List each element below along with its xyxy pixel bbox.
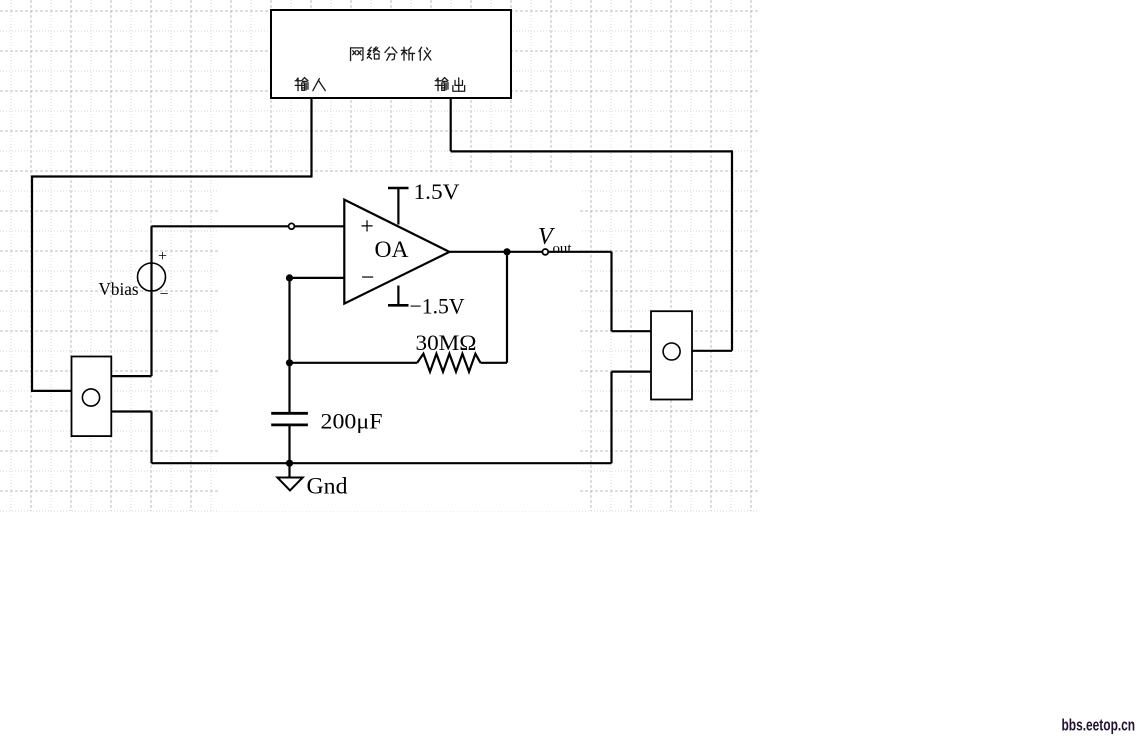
wire: left probe bottom stub [111,410,151,412]
op-amp U2 "OA" [344,200,449,304]
wire: feedback horizontal left [290,362,418,364]
node: junction dot inverting input [286,274,293,281]
node: junction dot feedback tap [286,359,293,366]
label 输入 (input port) [295,78,325,91]
wire: feedback horizontal right [481,362,508,364]
wire: inverting node down to cap [288,278,290,413]
svg-text:Vbias: Vbias [99,279,139,299]
svg-text:200μF: 200μF [321,409,383,434]
probe/connector J1 (left) [72,357,112,437]
svg-text:Gnd: Gnd [307,474,349,499]
wire: ground bus horizontal [152,462,612,464]
svg-text:−: − [159,286,168,303]
wire: 输入 lead down from box [310,98,312,177]
svg-text:−: − [361,265,375,291]
svg-text:out: out [553,242,572,257]
wire: cap bottom to ground bus [288,425,290,463]
wire: right probe bottom stub [612,371,652,373]
wire: horizontal to left edge [32,175,313,177]
node: junction dot output/feedback [503,248,510,255]
wire: into right probe [692,350,732,352]
label 输出 (output port) [435,78,464,92]
wire: 输出 lead down from box [450,98,452,151]
node: open terminal Vout [542,249,548,255]
svg-text:30MΩ: 30MΩ [416,330,477,355]
wire: right column upper (Vout) [610,252,612,331]
wire: Vbias down stem [150,291,152,377]
power supply -1.5V rail [388,286,465,319]
wire: op-amp output wire [449,251,611,253]
wire: horizontal to right edge [451,150,732,152]
svg-text:+: + [360,214,374,240]
wire: into left probe [31,390,72,392]
wire: feedback vertical to output [506,252,508,363]
wire: Vbias up stem [138,263,166,291]
label 网络分析仪 [351,47,431,61]
svg-text:+: + [158,248,167,265]
wire: right probe top stub [612,330,652,332]
wire: right outer vertical [731,150,733,350]
wire: left vertical bus [31,176,33,391]
instrument U1: network analyzer box [271,10,511,98]
power supply +1.5V rail [388,179,460,225]
svg-text:−1.5V: −1.5V [410,294,465,319]
ground Gnd [277,463,348,498]
svg-text:1.5V: 1.5V [414,179,460,204]
resistor R1 30MΩ [416,330,481,372]
node: junction dot ground bus [286,460,293,467]
wire: right column lower [610,372,612,464]
voltage source Vbias [99,248,169,303]
wire: left probe top stub [111,375,151,377]
node: open terminal on + input [289,223,295,229]
svg-text:bbs.eetop.cn: bbs.eetop.cn [1062,716,1136,735]
svg-text:OA: OA [375,237,409,262]
wire: non-inverting input wire [152,225,345,227]
wire: down to ground bus [150,412,152,464]
wire: inverting input wire [290,277,345,279]
capacitor C1 200µF [271,409,382,434]
label Vout [538,224,572,257]
probe/connector J2 (right) [651,311,692,399]
